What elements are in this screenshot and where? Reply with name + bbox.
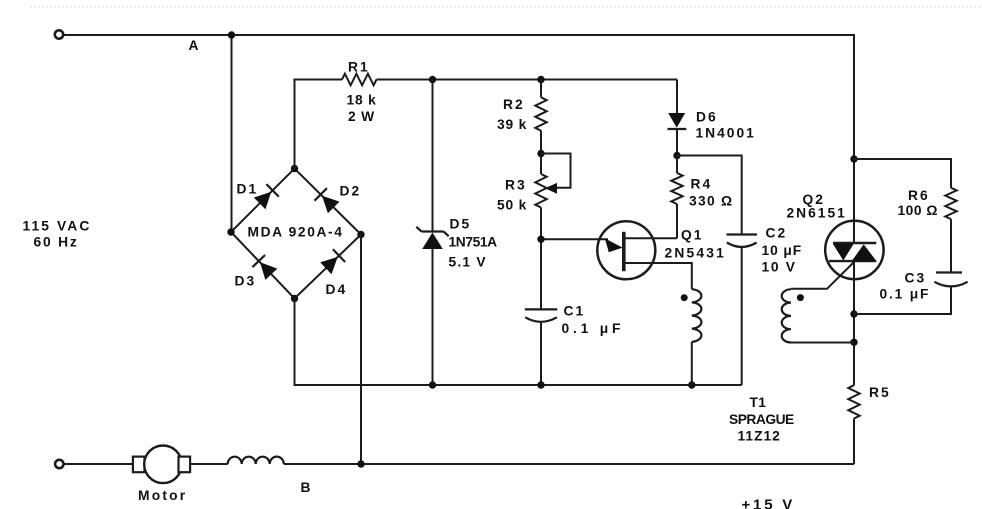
svg-text:B: B bbox=[301, 480, 311, 495]
svg-text:+15 V: +15 V bbox=[742, 497, 796, 509]
svg-text:39 k: 39 k bbox=[497, 117, 527, 132]
svg-text:115 VAC: 115 VAC bbox=[23, 219, 92, 234]
svg-text:C3: C3 bbox=[905, 271, 927, 286]
svg-text:D4: D4 bbox=[326, 282, 348, 297]
svg-text:R1: R1 bbox=[348, 60, 370, 75]
svg-text:100 Ω: 100 Ω bbox=[898, 203, 938, 218]
svg-text:C1: C1 bbox=[564, 304, 586, 319]
svg-text:R3: R3 bbox=[505, 178, 527, 193]
svg-text:5.1 V: 5.1 V bbox=[449, 255, 487, 270]
svg-text:R6: R6 bbox=[908, 188, 930, 203]
svg-text:2N6151: 2N6151 bbox=[787, 206, 847, 221]
svg-text:SPRAGUE: SPRAGUE bbox=[729, 412, 794, 427]
svg-text:T1: T1 bbox=[750, 395, 767, 410]
svg-text:A: A bbox=[189, 38, 199, 53]
svg-text:0.1 μF: 0.1 μF bbox=[562, 321, 625, 336]
svg-text:10 μF: 10 μF bbox=[762, 243, 803, 258]
svg-text:D5: D5 bbox=[450, 217, 472, 232]
svg-text:0.1 μF: 0.1 μF bbox=[880, 287, 931, 302]
svg-text:2N5431: 2N5431 bbox=[665, 246, 727, 261]
svg-text:D1: D1 bbox=[237, 182, 259, 197]
svg-text:11Z12: 11Z12 bbox=[738, 429, 781, 444]
svg-text:R5: R5 bbox=[869, 385, 891, 400]
svg-text:R2: R2 bbox=[503, 97, 525, 112]
svg-text:Motor: Motor bbox=[138, 488, 187, 503]
svg-text:D3: D3 bbox=[235, 274, 257, 289]
svg-text:60 Hz: 60 Hz bbox=[34, 235, 79, 250]
svg-text:D2: D2 bbox=[340, 184, 362, 199]
svg-text:330 Ω: 330 Ω bbox=[689, 194, 733, 209]
svg-text:1N4001: 1N4001 bbox=[696, 126, 756, 141]
svg-text:10 V: 10 V bbox=[762, 260, 797, 275]
svg-text:18 k: 18 k bbox=[347, 93, 377, 108]
svg-text:C2: C2 bbox=[766, 226, 788, 241]
svg-text:R4: R4 bbox=[691, 177, 713, 192]
svg-text:2 W: 2 W bbox=[348, 109, 375, 124]
svg-text:1N751A: 1N751A bbox=[449, 235, 498, 250]
svg-text:MDA 920A-4: MDA 920A-4 bbox=[248, 225, 344, 240]
svg-text:50 k: 50 k bbox=[497, 198, 527, 213]
svg-text:Q1: Q1 bbox=[681, 228, 703, 243]
svg-text:D6: D6 bbox=[696, 110, 718, 125]
